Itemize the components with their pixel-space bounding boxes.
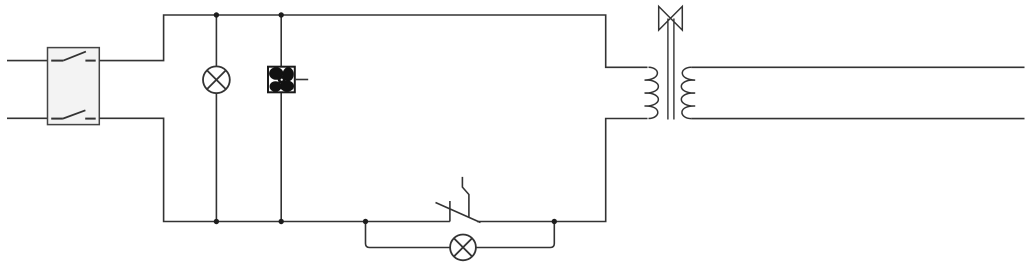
switch S2 (bottom wire, with actuator)	[436, 177, 481, 223]
fan M1 (square with blades)	[268, 67, 295, 93]
S1 pole 2 blade	[63, 110, 86, 118]
wire: top input line L	[7, 60, 48, 62]
node: bottom bus / lamp E2 branch left	[363, 219, 368, 224]
fan M1 stub lead right	[295, 79, 308, 81]
wire: bottom bus right part up to transformer primary bottom	[477, 119, 648, 222]
node: bottom bus / lamp branch	[214, 219, 219, 224]
transformer T1 core lines	[667, 19, 669, 120]
node: top bus / lamp branch	[214, 12, 219, 17]
node: bottom bus / fan branch	[279, 219, 284, 224]
lamp E1 (circle with X)	[203, 66, 230, 93]
lamp E2 branch wire right	[476, 222, 554, 248]
wire: secondary bottom output	[691, 118, 1024, 120]
switch S1 (double-pole switch box)	[48, 48, 100, 125]
wire: secondary top output	[691, 66, 1024, 68]
transformer T1 primary coil	[645, 67, 659, 118]
lamp E2 (circle with X)	[450, 235, 476, 261]
S2 blade	[436, 203, 481, 223]
fan M1 branch wire bottom	[280, 92, 282, 221]
wire: box bottom to riser, down and along bottom bus to lamp switch	[99, 118, 450, 221]
wire: box to riser, up and along top bus to transformer	[99, 15, 647, 67]
S1 pole 2 contact left	[51, 118, 63, 120]
S1 pole 1 contact right	[85, 60, 95, 62]
S1 pole 1 contact left	[51, 60, 63, 62]
S1 pole 1 blade	[63, 52, 86, 61]
wire: bottom input line N	[7, 117, 48, 119]
node: bottom bus / lamp E2 branch right	[552, 219, 557, 224]
fan M1 branch wire top	[280, 15, 282, 67]
S2 actuator linkage	[462, 177, 469, 217]
S1 pole 2 contact right	[85, 118, 96, 120]
lamp E1 branch wire bottom	[215, 93, 217, 221]
S2 left contact stub	[449, 201, 451, 222]
node: top bus / fan branch	[279, 12, 284, 17]
transformer T1 secondary coil	[681, 67, 695, 118]
valve symbol (bowtie) on top of core	[659, 6, 683, 30]
lamp E2 branch wire left	[366, 222, 451, 248]
lamp E1 branch wire top	[215, 15, 217, 66]
